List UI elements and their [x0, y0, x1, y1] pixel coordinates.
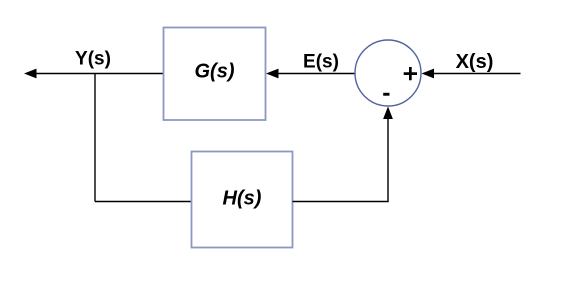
label minus sign (negative feedback input) [383, 93, 389, 96]
summing junction S1 [355, 40, 421, 106]
svg-text:Y(s): Y(s) [75, 49, 111, 70]
arrowhead: output arrow Y(s) pointing left [24, 69, 37, 79]
wire: feedback path down from tap node and right to H(s) left edge [95, 201, 192, 203]
block H1: feedback transfer function box [192, 152, 293, 248]
wire: output line from G(s) left edge to output arrow [35, 73, 164, 75]
wire: H(s) output right then up to summing junction [293, 117, 389, 202]
arrowhead: into summing junction right edge pointing left [422, 69, 435, 79]
wire: input line X(s) from right [432, 73, 521, 75]
arrowhead: into summing junction bottom pointing up [383, 107, 393, 120]
svg-text:E(s): E(s) [303, 52, 339, 73]
svg-text:H(s): H(s) [223, 188, 262, 210]
wire: error signal line from summing junction to G(s) [277, 73, 356, 75]
label plus sign (positive input) [404, 67, 417, 80]
svg-text:G(s): G(s) [195, 61, 235, 83]
svg-text:X(s): X(s) [456, 51, 494, 73]
node: feedback tap junction, vertical wire down from output line [94, 74, 96, 202]
arrowhead: into G(s) right edge pointing left [266, 69, 279, 79]
block G1: forward transfer function box [164, 28, 266, 121]
